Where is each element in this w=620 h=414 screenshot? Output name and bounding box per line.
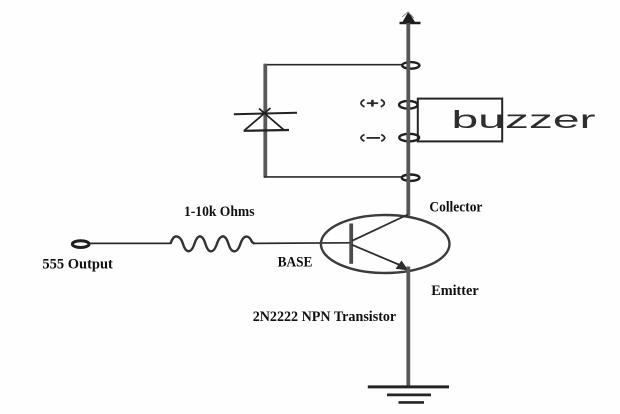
node N4	[402, 175, 420, 181]
transistor base bar	[349, 224, 353, 264]
svg-text:BASE: BASE	[278, 254, 313, 270]
svg-text:Emitter: Emitter	[431, 283, 479, 299]
transistor emitter stroke with arrow	[352, 245, 401, 266]
wire: 555 output to resistor	[90, 242, 171, 244]
node N1	[402, 62, 419, 69]
node N3 (- terminal)	[399, 134, 419, 142]
label (+)	[361, 100, 384, 107]
wire: resistor to base	[254, 242, 350, 245]
wire: loop top horizontal	[264, 64, 402, 66]
wire: loop left vertical	[263, 64, 267, 178]
svg-text:Collector: Collector	[429, 200, 482, 216]
resistor R1 squiggle	[171, 236, 255, 251]
wire: main vertical supply rail	[406, 23, 410, 216]
label (-)	[361, 135, 385, 142]
diode D1 (flyback, cathode up)	[234, 108, 297, 131]
wire: emitter vertical to ground	[406, 267, 410, 388]
node N2 (+ terminal)	[399, 101, 417, 109]
svg-text:2N2222 NPN Transistor: 2N2222 NPN Transistor	[253, 309, 397, 325]
svg-text:1-10k Ohms: 1-10k Ohms	[184, 204, 255, 220]
svg-text:buzzer: buzzer	[452, 106, 596, 134]
transistor Q1 body circle	[321, 215, 450, 273]
ground symbol	[368, 387, 449, 403]
wire: loop bottom horizontal	[264, 176, 402, 178]
transistor collector stroke	[352, 215, 408, 241]
buzzer outline box	[418, 99, 502, 142]
power supply symbol (up arrow)	[400, 12, 421, 24]
input terminal (555 output pin)	[72, 241, 89, 248]
svg-text:555 Output: 555 Output	[42, 257, 113, 273]
